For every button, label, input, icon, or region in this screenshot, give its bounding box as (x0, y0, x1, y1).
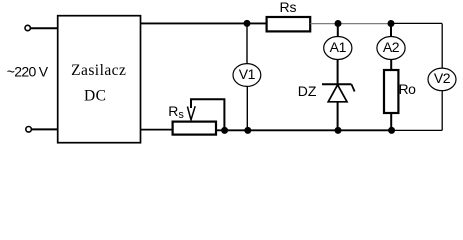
power supply box U1 Zasilacz DC (58, 16, 141, 143)
wire V1 branch bottom (246, 86, 248, 130)
wire bottom rail thin to right column (392, 129, 443, 131)
node junction wiper (221, 127, 228, 134)
ammeter A1 (324, 37, 352, 60)
wire right column bottom (441, 91, 443, 131)
wire top-left terminal to box (30, 27, 58, 29)
svg-text:A2: A2 (383, 39, 400, 55)
potentiometer Rs (173, 122, 216, 135)
wire DZ to bottom rail (337, 102, 339, 131)
zener diode DZ cathode tick (352, 84, 355, 91)
wire A2 to Ro (390, 60, 392, 71)
wire Rs to A2 node (gray) (310, 23, 391, 25)
ammeter A2 (377, 37, 405, 60)
node junction bottom Ro (388, 127, 395, 134)
wire right column top (441, 24, 443, 69)
wire bottom-left terminal to box (31, 128, 58, 130)
svg-text:Rs: Rs (279, 0, 296, 15)
potentiometer wiper arm (191, 99, 224, 130)
wire box to potentiometer (141, 129, 173, 131)
wire A1 to DZ (337, 60, 339, 85)
wire box to Rs (141, 22, 267, 24)
svg-text:Zasilacz: Zasilacz (71, 62, 126, 79)
voltmeter V2 (428, 68, 456, 91)
resistor Rs (267, 17, 311, 31)
svg-text:~220 V: ~220 V (7, 64, 49, 80)
terminal top-left (25, 25, 30, 30)
node junction bottom V1 (244, 127, 251, 134)
wire junction to A2 (390, 24, 392, 37)
zener diode DZ cathode bar (322, 83, 352, 85)
svg-text:DZ: DZ (298, 83, 317, 99)
node junction top A1 (335, 20, 342, 27)
svg-text:V2: V2 (434, 70, 451, 86)
terminal bottom-left (26, 127, 32, 133)
voltmeter V1 (233, 64, 261, 87)
wire V1 branch top (246, 23, 248, 63)
svg-text:A1: A1 (330, 39, 347, 55)
node junction bottom DZ (335, 127, 342, 134)
potentiometer wiper arrowhead (187, 106, 195, 120)
bottom rail (216, 129, 392, 131)
wire junction to A1 (337, 24, 339, 37)
svg-text:DC: DC (84, 87, 106, 104)
resistor Ro (384, 70, 398, 113)
node junction top V1 (244, 20, 251, 27)
svg-text:V1: V1 (239, 66, 256, 82)
zener diode DZ triangle (328, 85, 347, 102)
wire Ro to bottom rail (390, 113, 392, 130)
wire A2 node to right column (391, 22, 442, 24)
svg-text:Ro: Ro (399, 81, 417, 97)
node junction top A2 (388, 20, 395, 27)
